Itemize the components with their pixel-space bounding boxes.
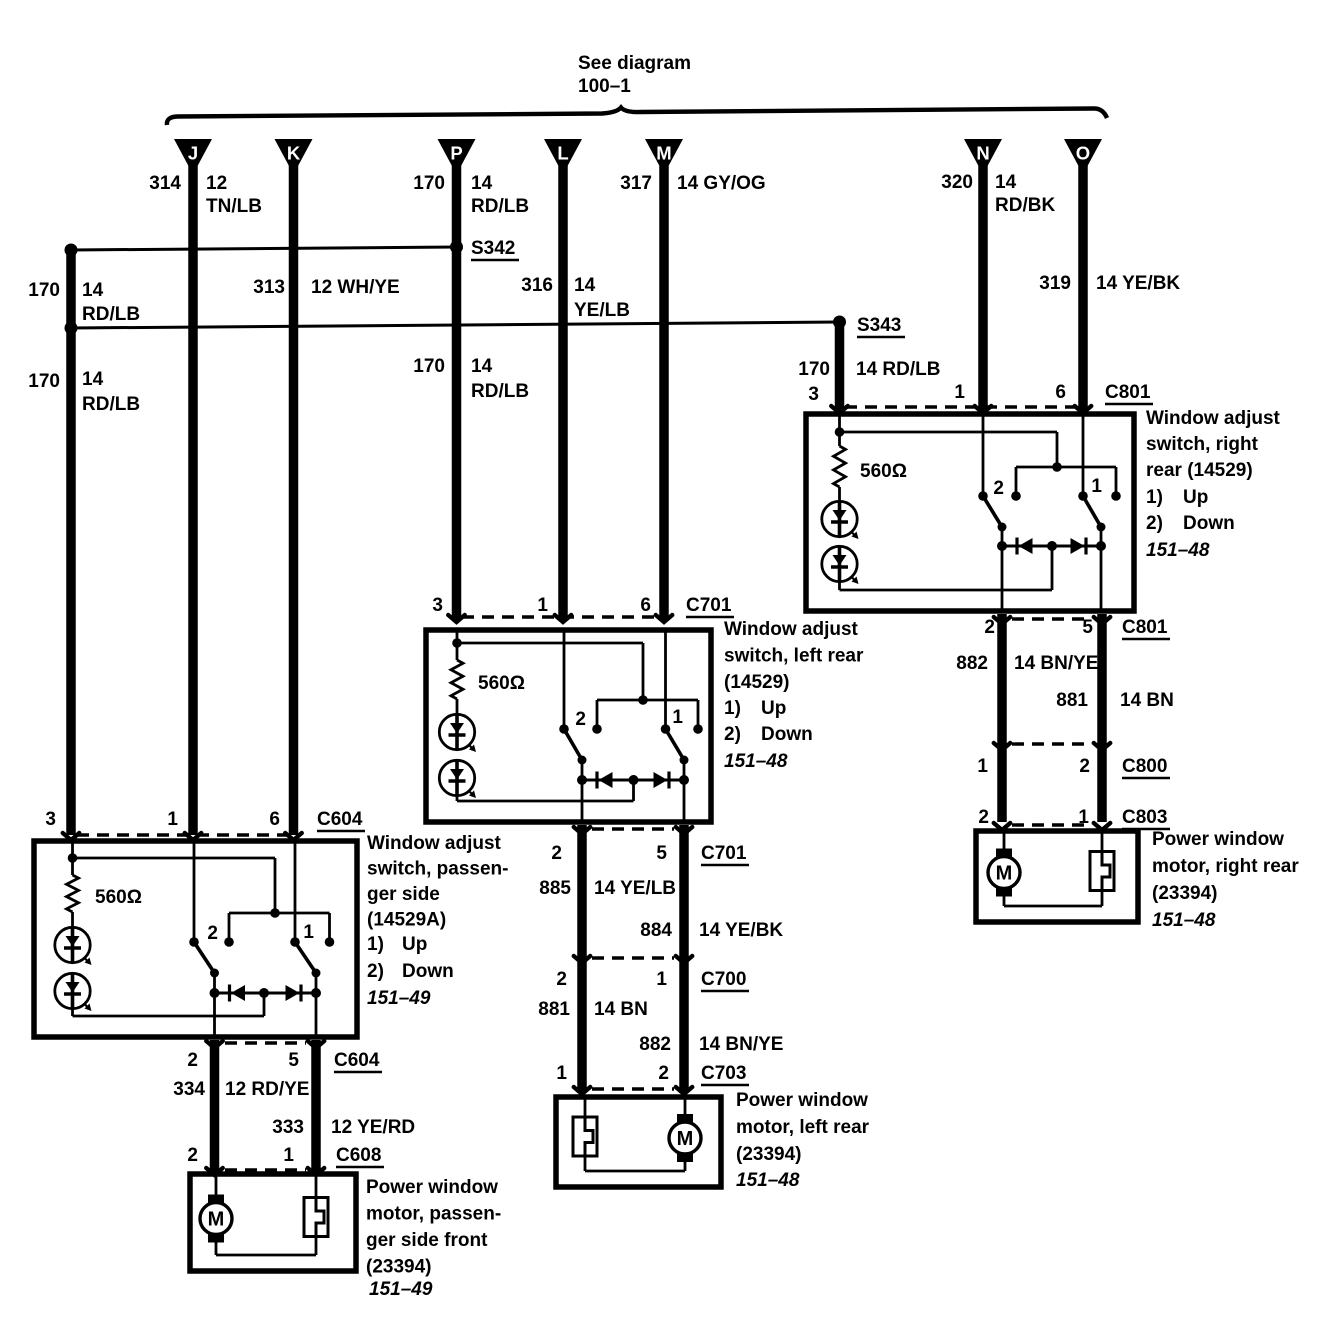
svg-text:151–49: 151–49 [367, 988, 431, 1009]
svg-text:ger side: ger side [367, 884, 440, 905]
svg-text:2: 2 [658, 1063, 669, 1084]
svg-text:Window adjust: Window adjust [367, 833, 502, 854]
svg-text:1: 1 [672, 707, 683, 728]
svg-text:1: 1 [167, 809, 178, 830]
svg-text:2): 2) [1146, 513, 1163, 534]
svg-text:1: 1 [556, 1063, 567, 1084]
svg-text:151–49: 151–49 [369, 1279, 433, 1300]
svg-text:14 RD/LB: 14 RD/LB [856, 359, 940, 380]
svg-text:170: 170 [28, 280, 60, 301]
svg-text:560Ω: 560Ω [95, 887, 142, 908]
svg-text:C703: C703 [701, 1063, 746, 1084]
svg-text:C608: C608 [336, 1145, 381, 1166]
svg-text:RD/BK: RD/BK [995, 195, 1055, 216]
svg-text:Down: Down [761, 724, 813, 745]
svg-text:12 YE/RD: 12 YE/RD [331, 1117, 415, 1138]
svg-text:100–1: 100–1 [578, 76, 631, 97]
svg-text:M: M [996, 863, 1013, 885]
svg-text:14 GY/OG: 14 GY/OG [677, 173, 766, 194]
svg-text:6: 6 [1055, 382, 1066, 403]
svg-text:313: 313 [253, 277, 285, 298]
svg-text:2): 2) [724, 724, 741, 745]
svg-text:882: 882 [639, 1034, 671, 1055]
svg-text:6: 6 [269, 809, 280, 830]
svg-text:151–48: 151–48 [724, 751, 788, 772]
svg-text:5: 5 [656, 843, 667, 864]
svg-text:885: 885 [539, 878, 571, 899]
svg-text:5: 5 [1082, 617, 1093, 638]
svg-text:3: 3 [45, 809, 56, 830]
svg-text:2: 2 [551, 843, 562, 864]
svg-text:Down: Down [402, 961, 454, 982]
svg-text:1: 1 [954, 382, 965, 403]
svg-text:C604: C604 [334, 1050, 380, 1071]
svg-text:1: 1 [977, 756, 988, 777]
svg-text:C803: C803 [1122, 807, 1167, 828]
svg-text:See diagram: See diagram [578, 53, 691, 74]
svg-text:1): 1) [1146, 487, 1163, 508]
svg-text:560Ω: 560Ω [478, 673, 525, 694]
svg-text:6: 6 [640, 595, 651, 616]
svg-text:C701: C701 [701, 843, 747, 864]
svg-text:170: 170 [798, 359, 830, 380]
svg-text:Window adjust: Window adjust [724, 619, 859, 640]
svg-text:Down: Down [1183, 513, 1235, 534]
svg-text:882: 882 [956, 653, 988, 674]
svg-text:170: 170 [28, 371, 60, 392]
svg-text:884: 884 [640, 920, 672, 941]
svg-text:C604: C604 [317, 809, 363, 830]
svg-text:14: 14 [82, 369, 104, 390]
svg-text:switch, passen-: switch, passen- [367, 859, 509, 880]
svg-text:14 BN/YE: 14 BN/YE [699, 1034, 783, 1055]
svg-text:316: 316 [521, 275, 553, 296]
svg-text:TN/LB: TN/LB [206, 196, 262, 217]
svg-text:M: M [677, 1128, 694, 1150]
svg-text:RD/LB: RD/LB [82, 394, 140, 415]
svg-text:2: 2 [187, 1145, 198, 1166]
svg-text:14: 14 [574, 275, 596, 296]
svg-text:1): 1) [724, 698, 741, 719]
svg-text:RD/LB: RD/LB [471, 196, 529, 217]
svg-text:314: 314 [149, 173, 181, 194]
svg-text:RD/LB: RD/LB [471, 381, 529, 402]
svg-text:319: 319 [1039, 273, 1071, 294]
svg-text:Power window: Power window [736, 1090, 868, 1111]
svg-text:(23394): (23394) [366, 1257, 432, 1278]
svg-text:rear (14529): rear (14529) [1146, 460, 1253, 481]
svg-text:C700: C700 [701, 969, 746, 990]
svg-text:1: 1 [537, 595, 548, 616]
svg-text:2: 2 [993, 478, 1004, 499]
svg-text:Power window: Power window [366, 1177, 498, 1198]
svg-text:Up: Up [761, 698, 786, 719]
svg-text:1: 1 [1091, 476, 1102, 497]
svg-text:M: M [208, 1209, 225, 1231]
svg-text:2: 2 [207, 923, 218, 944]
svg-text:317: 317 [620, 173, 652, 194]
svg-text:Up: Up [1183, 487, 1208, 508]
svg-text:switch, right: switch, right [1146, 434, 1259, 455]
svg-text:14 BN: 14 BN [594, 999, 648, 1020]
svg-text:14 BN/YE: 14 BN/YE [1014, 653, 1098, 674]
svg-text:motor, passen-: motor, passen- [366, 1204, 501, 1225]
svg-text:2: 2 [575, 709, 586, 730]
svg-text:333: 333 [272, 1117, 304, 1138]
svg-text:C801: C801 [1122, 617, 1168, 638]
svg-text:14: 14 [82, 280, 104, 301]
svg-text:560Ω: 560Ω [860, 461, 907, 482]
svg-text:2): 2) [367, 961, 384, 982]
svg-text:151–48: 151–48 [736, 1170, 800, 1191]
svg-text:1: 1 [283, 1145, 294, 1166]
svg-text:switch, left rear: switch, left rear [724, 646, 864, 667]
svg-text:151–48: 151–48 [1152, 910, 1216, 931]
svg-text:YE/LB: YE/LB [574, 300, 630, 321]
svg-text:(23394): (23394) [736, 1144, 802, 1165]
svg-text:320: 320 [941, 172, 973, 193]
svg-text:2: 2 [978, 807, 989, 828]
svg-text:S343: S343 [857, 315, 901, 336]
svg-text:14: 14 [995, 172, 1017, 193]
svg-text:14 BN: 14 BN [1120, 690, 1174, 711]
svg-text:S342: S342 [471, 238, 515, 259]
svg-text:C801: C801 [1105, 382, 1151, 403]
svg-text:motor, right rear: motor, right rear [1152, 856, 1299, 877]
svg-text:12: 12 [206, 173, 227, 194]
svg-text:(14529A): (14529A) [367, 910, 446, 931]
svg-text:Up: Up [402, 934, 427, 955]
svg-text:14: 14 [471, 173, 493, 194]
svg-text:motor, left rear: motor, left rear [736, 1117, 870, 1138]
svg-text:881: 881 [1056, 690, 1088, 711]
svg-text:2: 2 [187, 1050, 198, 1071]
svg-text:ger side front: ger side front [366, 1230, 488, 1251]
svg-text:Power window: Power window [1152, 829, 1284, 850]
svg-text:12 RD/YE: 12 RD/YE [225, 1079, 309, 1100]
svg-text:14 YE/BK: 14 YE/BK [699, 920, 783, 941]
svg-text:151–48: 151–48 [1146, 540, 1210, 561]
svg-text:1: 1 [656, 969, 667, 990]
svg-text:14: 14 [471, 356, 493, 377]
svg-text:Window adjust: Window adjust [1146, 408, 1281, 429]
svg-text:(14529): (14529) [724, 672, 790, 693]
svg-text:14 YE/BK: 14 YE/BK [1096, 273, 1180, 294]
svg-text:RD/LB: RD/LB [82, 304, 140, 325]
svg-text:334: 334 [173, 1079, 205, 1100]
svg-text:1): 1) [367, 934, 384, 955]
svg-text:881: 881 [538, 999, 570, 1020]
svg-text:5: 5 [288, 1050, 299, 1071]
svg-text:2: 2 [556, 969, 567, 990]
svg-text:14 YE/LB: 14 YE/LB [594, 878, 676, 899]
svg-text:12 WH/YE: 12 WH/YE [311, 277, 400, 298]
svg-text:170: 170 [413, 173, 445, 194]
svg-text:(23394): (23394) [1152, 883, 1218, 904]
svg-text:170: 170 [413, 356, 445, 377]
svg-text:2: 2 [1079, 756, 1090, 777]
svg-text:3: 3 [432, 595, 443, 616]
svg-text:C800: C800 [1122, 756, 1167, 777]
svg-text:3: 3 [808, 384, 819, 405]
svg-text:C701: C701 [686, 595, 732, 616]
svg-text:1: 1 [303, 922, 314, 943]
svg-text:2: 2 [984, 617, 995, 638]
